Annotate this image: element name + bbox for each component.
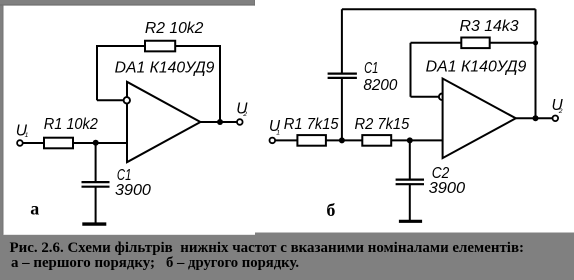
svg-text:б: б (326, 200, 335, 220)
svg-text:R3 14k3: R3 14k3 (460, 18, 519, 35)
svg-text:DA1 К140УД9: DA1 К140УД9 (426, 59, 527, 76)
svg-text:8200: 8200 (363, 77, 397, 94)
svg-text:а – першого порядку;: а – першого порядку; (11, 255, 155, 271)
svg-text:1: 1 (25, 132, 29, 139)
svg-text:R2 7k15: R2 7k15 (355, 116, 410, 133)
svg-text:2: 2 (242, 111, 247, 118)
svg-text:3900: 3900 (429, 180, 466, 197)
svg-text:R1 7k15: R1 7k15 (284, 116, 339, 133)
svg-text:б – другого порядку.: б – другого порядку. (166, 255, 299, 271)
svg-text:Рис. 2.6. Схеми фільтрів нижн: Рис. 2.6. Схеми фільтрів нижніх частот с… (10, 240, 525, 256)
svg-text:DA1 К140УД9: DA1 К140УД9 (115, 59, 215, 76)
svg-text:R2 10k2: R2 10k2 (145, 20, 204, 37)
svg-text:2: 2 (558, 108, 563, 115)
svg-text:1: 1 (276, 129, 280, 136)
svg-text:а: а (30, 199, 39, 219)
svg-text:3900: 3900 (115, 182, 151, 199)
svg-text:R1 10k2: R1 10k2 (44, 116, 99, 133)
svg-text:C1: C1 (364, 60, 378, 77)
